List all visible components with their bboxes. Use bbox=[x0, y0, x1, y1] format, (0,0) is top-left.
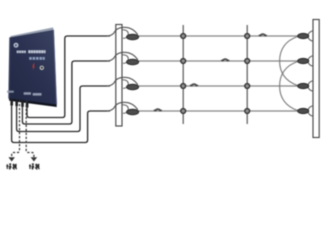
insulator right wire 3 bbox=[298, 83, 309, 88]
wire 2 arch over left post bbox=[107, 52, 138, 61]
serpentine arc wire2 to wire4 bbox=[280, 62, 298, 111]
fence wire 3 bbox=[139, 85, 299, 87]
insulator left wire 2 bbox=[127, 59, 139, 65]
wire 4 arch over left post bbox=[107, 102, 138, 111]
wire 3 loop at left post bbox=[123, 80, 129, 89]
lead wire 1 from box bbox=[27, 36, 110, 118]
terminal stubs under box bbox=[10, 99, 28, 108]
box bottom small texts bbox=[7, 91, 14, 93]
ground label 1 text jiedi bbox=[6, 164, 17, 169]
insulator left wire 4 bbox=[127, 109, 139, 115]
controller box top face bbox=[10, 27, 54, 37]
wire 4 loop at left post bbox=[123, 105, 129, 114]
right post bbox=[313, 20, 319, 138]
red indicator bolt on box bbox=[32, 63, 35, 70]
wire 2 loop at left post bbox=[123, 55, 129, 64]
left post bbox=[116, 25, 122, 127]
mid post 1 bbox=[182, 25, 184, 124]
right post loop wire 1 bbox=[308, 31, 313, 41]
junction mid post 2 wire 3 bbox=[245, 84, 250, 89]
insulator right wire 1 bbox=[298, 33, 309, 38]
round emblem on box bbox=[40, 66, 44, 70]
junction mid post 1 wire 2 bbox=[181, 59, 186, 64]
lead wire 2 from box bbox=[22, 61, 110, 124]
spring on wire 4 bbox=[154, 108, 162, 111]
junction mid post 2 wire 1 bbox=[245, 34, 250, 39]
controller box right edge highlight bbox=[54, 30, 57, 105]
ground lead 2 dashed bbox=[26, 101, 34, 157]
junction mid post 1 wire 3 bbox=[181, 84, 186, 89]
lead wire 4 from box bbox=[12, 99, 110, 143]
spring on wire 2 bbox=[221, 58, 229, 61]
wire 1 arch over left post bbox=[107, 27, 138, 36]
spring on wire 1 bbox=[259, 33, 267, 36]
right post loop wire 4 bbox=[308, 106, 313, 116]
right post loop wire 3 bbox=[308, 81, 313, 91]
box second text row bbox=[29, 57, 45, 60]
insulator left wire 1 bbox=[127, 34, 139, 40]
spring on wire 3 bbox=[190, 83, 198, 86]
ground arrow 1 bbox=[8, 157, 15, 161]
fence wire 2 bbox=[139, 60, 299, 62]
fence wire 4 bbox=[139, 110, 299, 112]
controller box (energizer) front face bbox=[9, 30, 57, 105]
right post loop wire 2 bbox=[308, 56, 313, 66]
mid post 2 bbox=[246, 25, 248, 124]
serpentine arc wire1 to wire3 bbox=[280, 37, 298, 86]
junction mid post 1 wire 4 bbox=[181, 109, 186, 114]
junction mid post 2 wire 4 bbox=[245, 109, 250, 114]
wire 3 arch over left post bbox=[107, 77, 138, 86]
insulator right wire 4 bbox=[298, 108, 309, 113]
insulator left wire 3 bbox=[127, 84, 139, 90]
ground label 2 text jiedi bbox=[29, 164, 40, 169]
ground arrow 2 bbox=[31, 157, 38, 161]
junction mid post 2 wire 2 bbox=[245, 59, 250, 64]
insulator right wire 2 bbox=[298, 58, 309, 63]
box title text row bbox=[17, 51, 26, 54]
ground lead 1 dashed bbox=[12, 100, 20, 157]
controller box left edge bbox=[9, 38, 10, 99]
logo emblem on box bbox=[14, 43, 19, 48]
junction mid post 1 wire 1 bbox=[181, 34, 186, 39]
box bottom shadow bbox=[9, 99, 57, 108]
wire 1 loop at left post bbox=[123, 30, 129, 39]
fence wire 1 bbox=[139, 35, 299, 37]
lead wire 3 from box bbox=[17, 86, 110, 132]
